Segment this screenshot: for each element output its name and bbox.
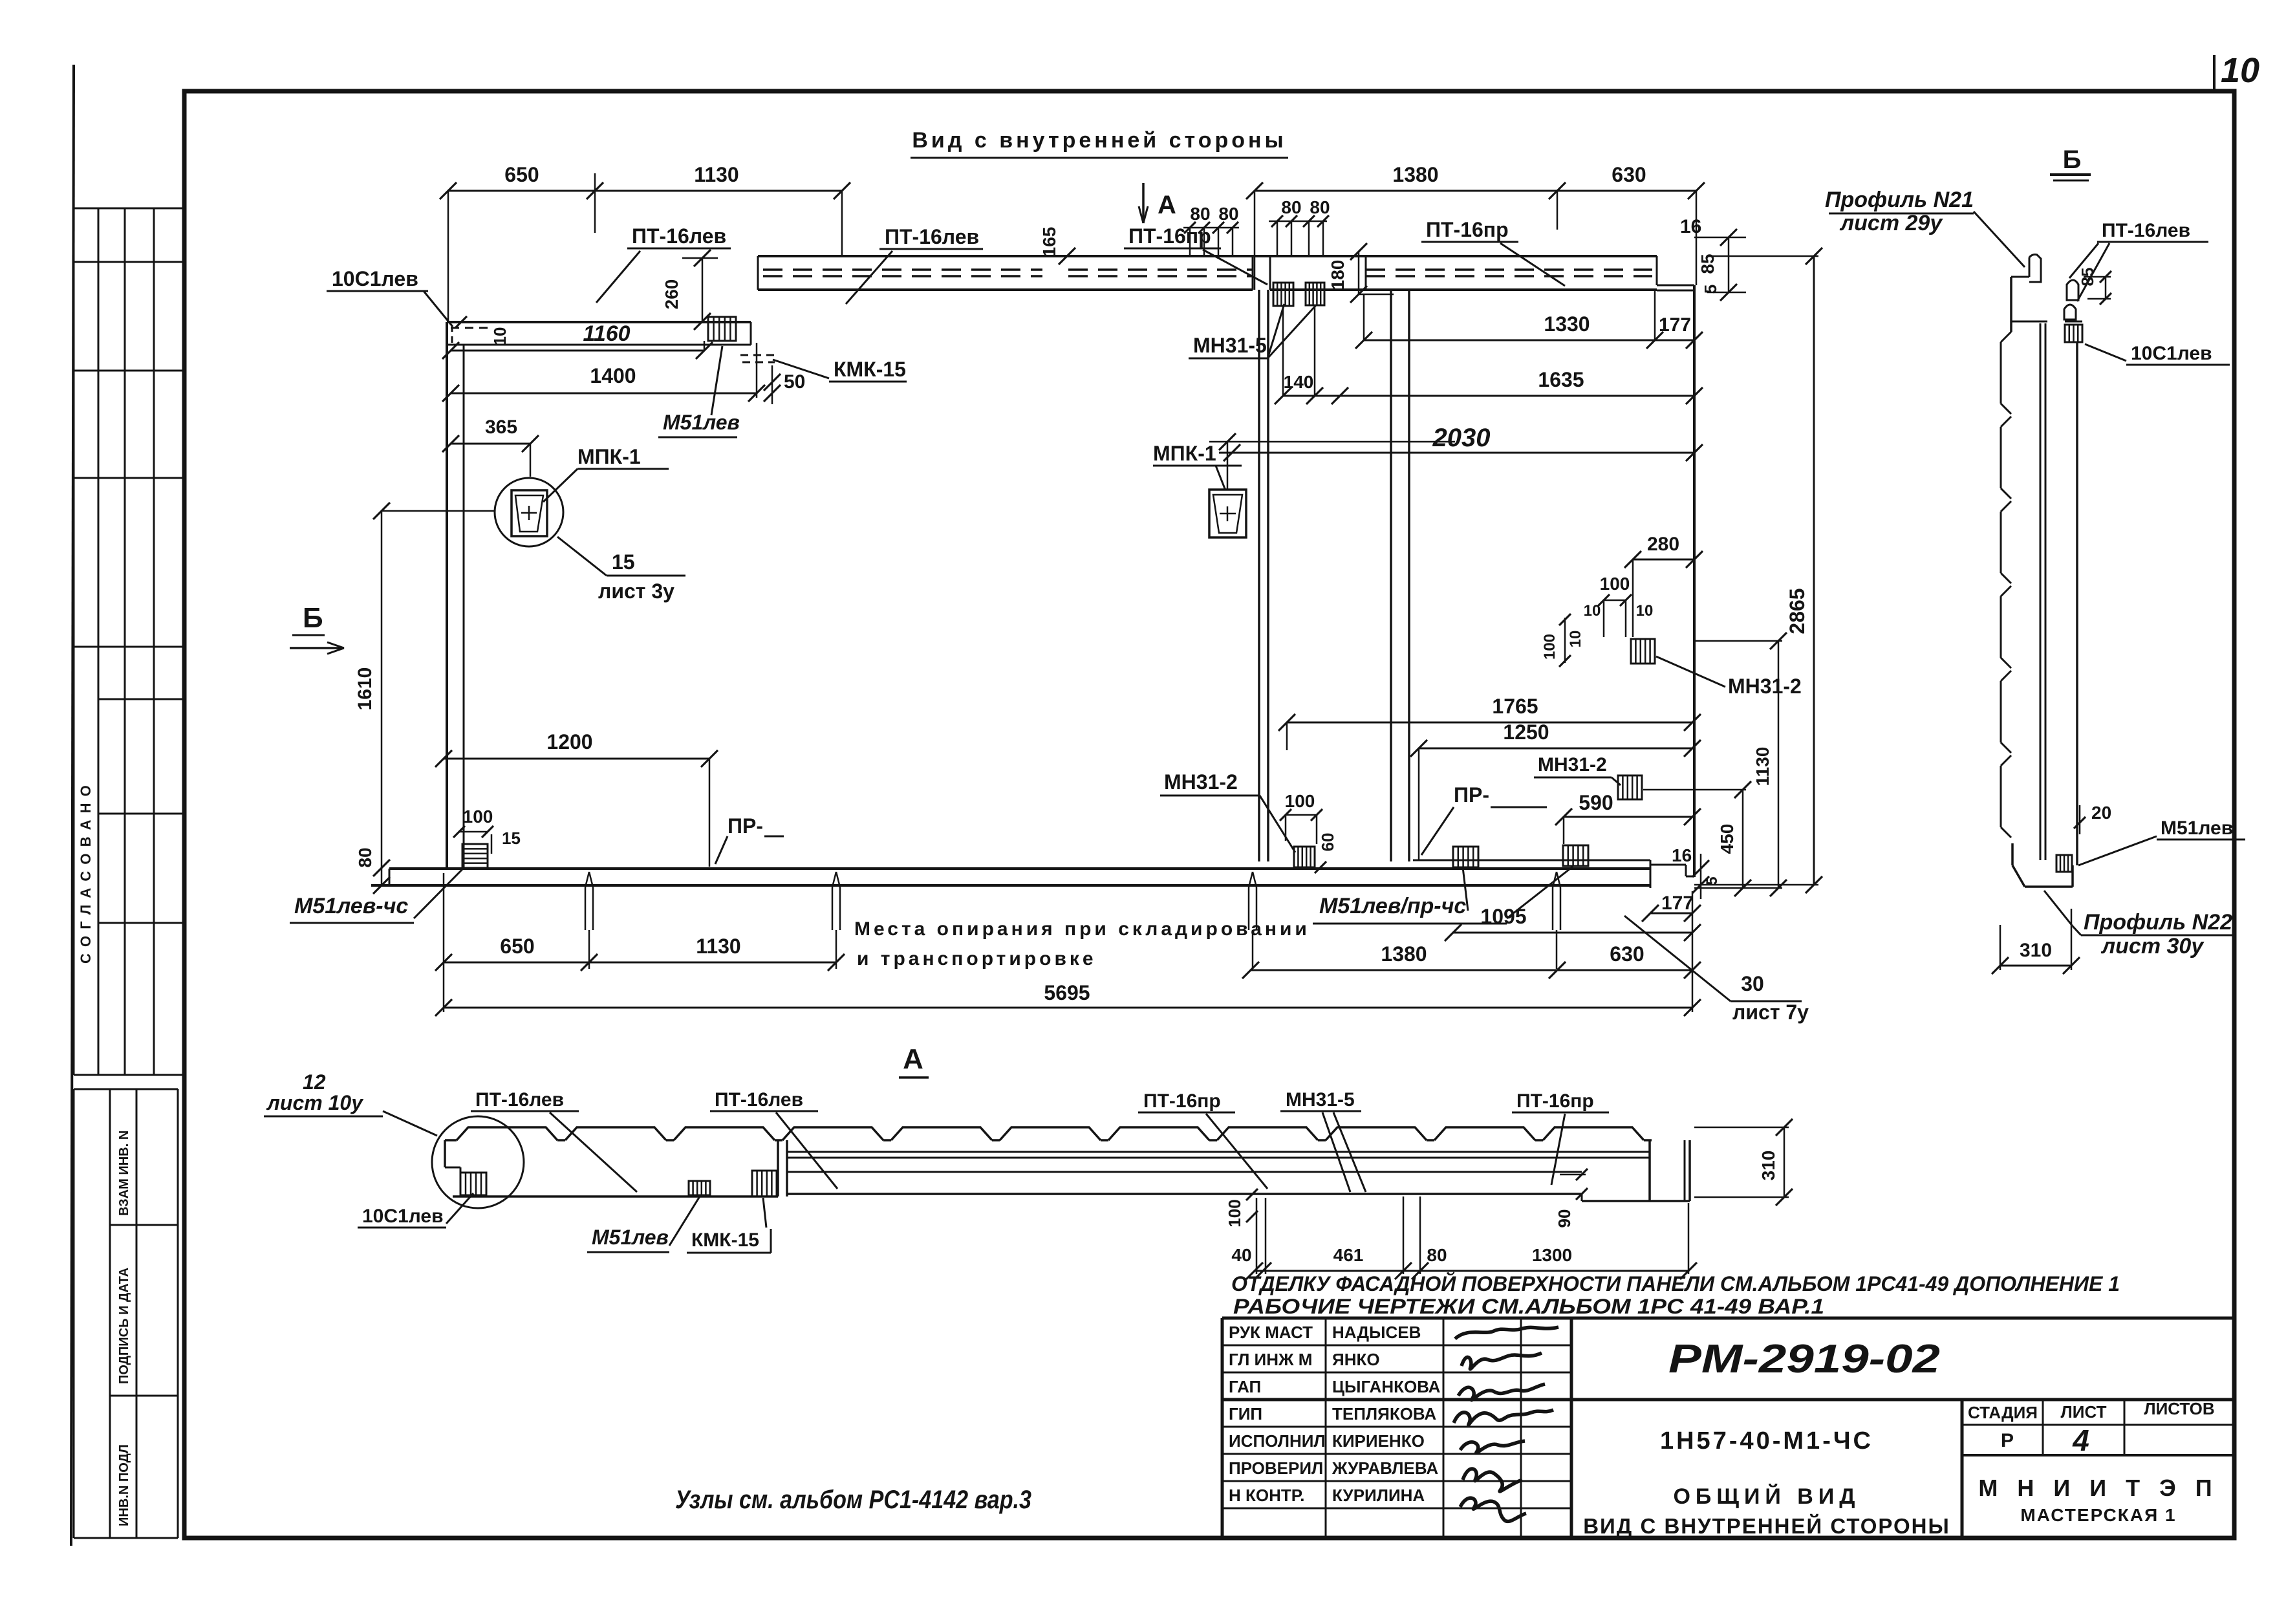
svg-text:ПТ-16лев: ПТ-16лев	[475, 1089, 564, 1110]
svg-text:лист 29у: лист 29у	[1839, 211, 1943, 235]
svg-text:80: 80	[1310, 197, 1330, 217]
svg-text:310: 310	[2020, 940, 2052, 961]
svg-text:177: 177	[1661, 893, 1694, 914]
svg-text:260: 260	[662, 279, 682, 310]
svg-text:лист 7у: лист 7у	[1732, 1001, 1809, 1024]
svg-text:90: 90	[1555, 1209, 1574, 1228]
svg-text:МН31-5: МН31-5	[1193, 334, 1267, 357]
svg-text:А: А	[1158, 191, 1176, 219]
svg-text:М Н И И Т Э П: М Н И И Т Э П	[1978, 1475, 2218, 1501]
svg-text:10: 10	[1636, 602, 1654, 620]
svg-text:280: 280	[1647, 534, 1679, 555]
svg-text:15: 15	[612, 550, 635, 574]
svg-text:НАДЫСЕВ: НАДЫСЕВ	[1332, 1323, 1421, 1342]
svg-text:461: 461	[1333, 1245, 1364, 1265]
svg-text:PM-2919-02: PM-2919-02	[1668, 1337, 1940, 1381]
svg-text:МН31-2: МН31-2	[1728, 675, 1802, 698]
svg-text:5: 5	[1703, 876, 1721, 885]
svg-text:ОТДЕЛКУ ФАСАДНОЙ ПОВЕРХНОСТИ П: ОТДЕЛКУ ФАСАДНОЙ ПОВЕРХНОСТИ ПАНЕЛИ СМ.А…	[1231, 1272, 2120, 1295]
svg-text:Вид с внутренней стороны: Вид с внутренней стороны	[912, 128, 1286, 153]
svg-text:Узлы см. альбом РС1-4142 вар.3: Узлы см. альбом РС1-4142 вар.3	[675, 1486, 1031, 1514]
svg-text:2865: 2865	[1785, 588, 1809, 634]
svg-text:МАСТЕРСКАЯ 1: МАСТЕРСКАЯ 1	[2020, 1505, 2176, 1525]
svg-text:С О Г Л А С О В А Н О: С О Г Л А С О В А Н О	[78, 784, 94, 964]
svg-text:лист 30у: лист 30у	[2100, 934, 2205, 958]
svg-text:Н КОНТР.: Н КОНТР.	[1229, 1486, 1304, 1505]
svg-text:80: 80	[1190, 204, 1210, 224]
svg-text:МПК-1: МПК-1	[577, 445, 641, 468]
svg-text:1400: 1400	[590, 364, 636, 387]
svg-text:ЖУРАВЛЕВА: ЖУРАВЛЕВА	[1332, 1458, 1438, 1478]
svg-text:ПРОВЕРИЛ: ПРОВЕРИЛ	[1229, 1458, 1323, 1478]
svg-text:10: 10	[1567, 631, 1584, 648]
svg-text:Профиль N22: Профиль N22	[2084, 910, 2232, 935]
svg-text:1380: 1380	[1381, 942, 1427, 966]
svg-text:50: 50	[784, 371, 805, 393]
svg-text:ПР-: ПР-	[1454, 783, 1489, 807]
svg-text:100: 100	[463, 807, 493, 827]
svg-text:10С1лев: 10С1лев	[2131, 343, 2212, 364]
svg-text:5695: 5695	[1044, 981, 1090, 1004]
svg-text:12: 12	[303, 1070, 326, 1094]
svg-text:ЯНКО: ЯНКО	[1332, 1350, 1380, 1369]
svg-text:630: 630	[1612, 163, 1646, 186]
svg-text:РАБОЧИЕ ЧЕРТЕЖИ СМ.АЛЬБОМ 1РС: РАБОЧИЕ ЧЕРТЕЖИ СМ.АЛЬБОМ 1РС 41-49 ВАР.…	[1233, 1295, 1824, 1318]
svg-text:ИСПОЛНИЛ: ИСПОЛНИЛ	[1229, 1431, 1326, 1451]
svg-text:630: 630	[1610, 942, 1644, 966]
svg-text:1250: 1250	[1503, 720, 1549, 744]
svg-text:10: 10	[490, 327, 510, 346]
svg-text:М51лев: М51лев	[663, 411, 740, 434]
svg-text:1130: 1130	[1752, 747, 1773, 786]
svg-text:Профиль N21: Профиль N21	[1825, 188, 1974, 212]
svg-text:650: 650	[500, 935, 534, 958]
svg-text:1095: 1095	[1480, 905, 1526, 928]
svg-text:5: 5	[1701, 285, 1720, 294]
svg-text:100: 100	[1285, 791, 1315, 811]
svg-text:1765: 1765	[1492, 695, 1538, 718]
svg-text:ЛИСТ: ЛИСТ	[2061, 1402, 2107, 1422]
svg-text:2030: 2030	[1432, 424, 1491, 452]
svg-text:МН31-5: МН31-5	[1286, 1089, 1355, 1110]
svg-text:МН31-2: МН31-2	[1164, 770, 1238, 794]
svg-text:10С1лев: 10С1лев	[332, 267, 418, 290]
svg-text:МН31-2: МН31-2	[1538, 754, 1607, 775]
svg-text:КУРИЛИНА: КУРИЛИНА	[1332, 1486, 1425, 1505]
svg-text:М51лев: М51лев	[2161, 817, 2233, 839]
svg-text:КМК-15: КМК-15	[834, 358, 906, 381]
svg-text:16: 16	[1672, 845, 1692, 865]
svg-text:1200: 1200	[546, 730, 592, 753]
svg-text:1160: 1160	[583, 321, 630, 346]
svg-text:ПР-: ПР-	[728, 814, 763, 838]
svg-text:лист 3у: лист 3у	[598, 579, 674, 603]
svg-text:ПТ-16пр: ПТ-16пр	[1426, 218, 1509, 241]
svg-text:10С1лев: 10С1лев	[362, 1206, 444, 1227]
svg-text:650: 650	[504, 163, 539, 186]
svg-text:80: 80	[355, 847, 375, 867]
svg-text:140: 140	[1284, 372, 1314, 392]
svg-text:МПК-1: МПК-1	[1153, 442, 1216, 465]
svg-text:100: 100	[1541, 634, 1558, 660]
svg-text:СТАДИЯ: СТАДИЯ	[1968, 1403, 2038, 1422]
svg-text:лист 10у: лист 10у	[266, 1091, 364, 1114]
svg-text:10: 10	[1584, 602, 1601, 620]
svg-text:365: 365	[485, 417, 517, 438]
svg-text:1H57-40-M1-ЧC: 1H57-40-M1-ЧC	[1660, 1427, 1873, 1455]
svg-text:450: 450	[1717, 824, 1737, 854]
svg-text:15: 15	[502, 828, 521, 848]
svg-text:А: А	[903, 1043, 923, 1075]
svg-text:1380: 1380	[1392, 163, 1438, 186]
svg-text:КМК-15: КМК-15	[691, 1229, 759, 1251]
svg-text:М51лев: М51лев	[592, 1226, 669, 1249]
svg-text:ПТ-16пр: ПТ-16пр	[1516, 1090, 1594, 1112]
svg-text:1330: 1330	[1544, 312, 1590, 336]
svg-text:ПТ-16пр: ПТ-16пр	[1143, 1090, 1221, 1112]
svg-text:ОБЩИЙ ВИД: ОБЩИЙ ВИД	[1673, 1484, 1860, 1509]
svg-text:Места опирания при складирован: Места опирания при складировании	[854, 918, 1310, 940]
svg-text:10: 10	[2221, 51, 2259, 90]
svg-text:1610: 1610	[354, 667, 376, 711]
svg-text:80: 80	[1218, 204, 1238, 224]
svg-text:ПОДПИСЬ И ДАТА: ПОДПИСЬ И ДАТА	[117, 1268, 131, 1384]
svg-text:ГАП: ГАП	[1229, 1377, 1261, 1396]
svg-text:ЛИСТОВ: ЛИСТОВ	[2144, 1399, 2214, 1418]
svg-text:ПТ-16пр: ПТ-16пр	[1128, 224, 1211, 248]
svg-text:1130: 1130	[694, 163, 739, 186]
svg-text:177: 177	[1659, 314, 1691, 336]
svg-text:ПТ-16лев: ПТ-16лев	[885, 225, 979, 248]
svg-text:80: 80	[1281, 197, 1301, 217]
svg-text:Р: Р	[2001, 1430, 2014, 1451]
svg-text:16: 16	[1680, 216, 1701, 237]
svg-text:КИРИЕНКО: КИРИЕНКО	[1332, 1431, 1425, 1451]
svg-text:М51лев-чс: М51лев-чс	[294, 894, 408, 918]
svg-text:ВИД С ВНУТРЕННЕЙ СТОРОНЫ: ВИД С ВНУТРЕННЕЙ СТОРОНЫ	[1583, 1513, 1950, 1538]
svg-text:310: 310	[1758, 1151, 1778, 1181]
svg-text:М51лев/пр-чс: М51лев/пр-чс	[1319, 894, 1466, 918]
svg-text:ГИП: ГИП	[1229, 1404, 1262, 1424]
svg-text:ИНВ.N ПОДЛ: ИНВ.N ПОДЛ	[117, 1444, 131, 1526]
svg-text:ТЕПЛЯКОВА: ТЕПЛЯКОВА	[1332, 1404, 1436, 1424]
svg-text:1635: 1635	[1538, 368, 1584, 391]
svg-text:100: 100	[1600, 574, 1630, 594]
svg-text:ВЗАМ ИНВ. N: ВЗАМ ИНВ. N	[117, 1131, 131, 1216]
svg-text:40: 40	[1231, 1245, 1251, 1265]
svg-text:ПТ-16лев: ПТ-16лев	[632, 224, 726, 248]
svg-text:Б: Б	[2063, 146, 2082, 174]
svg-text:60: 60	[1318, 833, 1337, 852]
svg-text:20: 20	[2091, 803, 2111, 823]
svg-text:30: 30	[1741, 972, 1764, 995]
svg-text:РУК МАСТ: РУК МАСТ	[1229, 1323, 1313, 1342]
svg-text:180: 180	[1328, 260, 1348, 290]
svg-text:ПТ-16лев: ПТ-16лев	[2102, 220, 2190, 241]
svg-text:ПТ-16лев: ПТ-16лев	[715, 1089, 803, 1110]
svg-text:1130: 1130	[696, 935, 740, 958]
svg-text:ЦЫГАНКОВА: ЦЫГАНКОВА	[1332, 1377, 1441, 1396]
svg-text:100: 100	[1225, 1199, 1244, 1227]
svg-text:165: 165	[1039, 227, 1059, 257]
svg-text:590: 590	[1579, 791, 1613, 814]
svg-text:и транспортировке: и транспортировке	[857, 948, 1097, 969]
svg-text:ГЛ ИНЖ М: ГЛ ИНЖ М	[1229, 1350, 1312, 1369]
svg-text:80: 80	[1427, 1245, 1447, 1265]
svg-text:4: 4	[2072, 1424, 2089, 1457]
svg-text:1300: 1300	[1532, 1245, 1572, 1265]
svg-text:Б: Б	[303, 602, 323, 634]
